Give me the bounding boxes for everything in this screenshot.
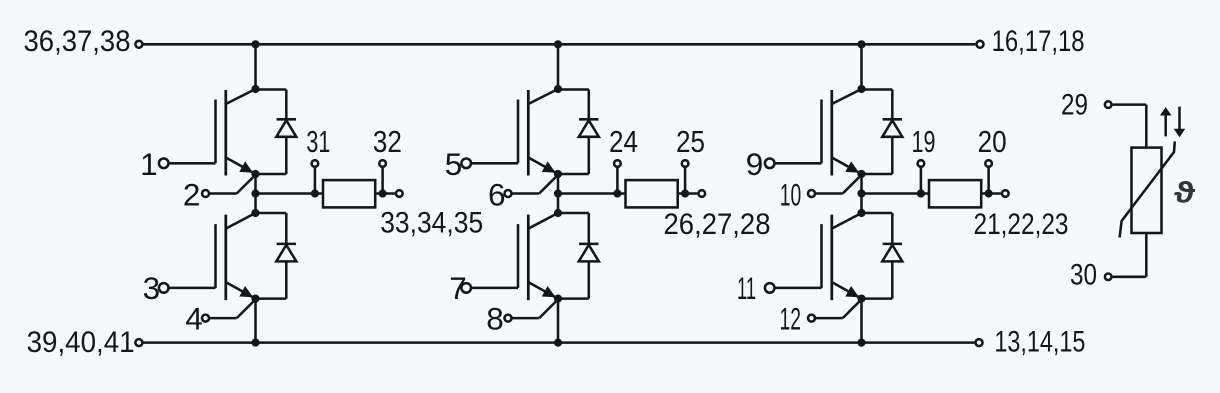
wire phase to resistor R3: [862, 192, 930, 195]
wire collector Q1: [254, 44, 257, 89]
pin 1 terminal: [159, 159, 169, 169]
wire collector Q3: [557, 44, 560, 89]
wire thermistor top: [1145, 105, 1148, 148]
wire emitter Q4 to bottom rail: [557, 299, 560, 343]
transistor Q6 emitter lead: [832, 282, 862, 299]
junction collector node Q5: [857, 85, 865, 93]
svg-text:3: 3: [143, 270, 161, 306]
junction top rail leg1: [251, 40, 259, 48]
wire pin 2 diagonal: [237, 175, 256, 194]
junction emitter node Q6: [857, 295, 865, 303]
transistor Q1 emitter lead: [226, 158, 256, 175]
svg-text:11: 11: [737, 270, 756, 306]
svg-text:30: 30: [1070, 259, 1097, 292]
wire emitter node to phase: [254, 174, 257, 213]
junction collector node Q6: [857, 209, 865, 217]
svg-text:8: 8: [486, 301, 504, 337]
arrow up (temperature): [1164, 113, 1167, 136]
svg-text:20: 20: [978, 124, 1007, 159]
wire collector to diode D4: [558, 212, 589, 215]
wire diode D2 to emitter node: [256, 297, 287, 300]
wire resistor R3 to output: [981, 192, 1001, 195]
transistor Q2 body bar: [224, 215, 227, 301]
wire DC+ rail (top): [143, 43, 975, 46]
junction emitter node Q4: [554, 295, 562, 303]
wire resistor R2 to output: [678, 192, 698, 195]
transistor Q6 gate lead wire: [775, 287, 821, 290]
wire resistor R1 to output: [375, 192, 395, 195]
diode D6 triangle: [882, 245, 902, 262]
pin 9 terminal: [765, 159, 775, 169]
wire diode D4 to emitter node: [558, 297, 589, 300]
junction phase node leg1: [251, 189, 259, 197]
wire thermistor to pin 30: [1113, 276, 1147, 279]
terminal DC+ left: [135, 41, 142, 48]
svg-text:9: 9: [746, 146, 764, 182]
transistor Q2 emitter arrow: [239, 286, 253, 297]
pin 30 terminal: [1105, 274, 1112, 281]
diode D2 cathode bar: [277, 243, 296, 246]
diode D1 cathode bar: [277, 118, 296, 121]
svg-text:24: 24: [609, 124, 638, 159]
transistor Q1 gate lead wire: [169, 162, 215, 165]
svg-text:12: 12: [780, 301, 802, 337]
wire collector to diode D3: [558, 88, 589, 91]
svg-text:13,14,15: 13,14,15: [994, 326, 1085, 359]
wire D3 cathode: [588, 90, 591, 120]
wire pin 25 stub: [684, 168, 687, 194]
transistor Q1 collector lead: [226, 89, 256, 104]
diode D5 cathode bar: [883, 118, 902, 121]
wire D6 anode: [891, 261, 894, 298]
junction pin 24 node: [613, 189, 621, 197]
transistor Q2 gate bar: [214, 224, 217, 288]
wire diode D6 to emitter node: [862, 297, 893, 300]
wire phase to resistor R1: [256, 192, 324, 195]
transistor Q6 body bar: [830, 215, 833, 301]
junction bottom rail leg1: [251, 339, 259, 347]
pin 6 terminal: [505, 190, 512, 197]
pin 12 terminal: [808, 315, 815, 322]
svg-text:1: 1: [140, 146, 158, 182]
pin 4 terminal: [202, 315, 209, 322]
pin 24 terminal: [614, 160, 621, 167]
junction bottom rail leg3: [857, 339, 865, 347]
pin 29 terminal: [1105, 101, 1112, 108]
junction collector node Q1: [251, 85, 259, 93]
pin 2 terminal: [202, 190, 209, 197]
wire diode D5 to emitter node: [862, 173, 893, 176]
svg-text:ϑ: ϑ: [1174, 176, 1196, 209]
svg-text:33,34,35: 33,34,35: [380, 207, 483, 240]
transistor Q3 emitter lead: [528, 158, 558, 175]
terminal AC output leg2: [699, 190, 706, 197]
wire D4 cathode: [588, 213, 591, 244]
transistor Q4 collector lead: [528, 213, 558, 229]
diode D2 triangle: [276, 245, 296, 262]
pin 20 terminal: [985, 160, 992, 167]
junction emitter node Q2: [251, 295, 259, 303]
transistor Q5 emitter lead: [832, 158, 862, 175]
diode D4 triangle: [579, 245, 599, 262]
wire D1 cathode: [285, 90, 288, 120]
pin 31 terminal: [312, 160, 319, 167]
svg-text:21,22,23: 21,22,23: [974, 208, 1069, 241]
transistor Q1 gate bar: [214, 100, 217, 164]
transistor Q4 body bar: [527, 215, 530, 301]
transistor Q4 gate lead wire: [472, 287, 518, 290]
terminal DC- right: [976, 339, 983, 346]
transistor Q3 body bar: [527, 90, 530, 176]
transistor Q3 collector lead: [528, 89, 558, 104]
transistor Q6 gate bar: [820, 224, 823, 288]
wire pin 12 diagonal: [843, 299, 862, 318]
wire D4 anode: [588, 261, 591, 298]
wire pin 24 stub: [616, 168, 619, 194]
wire emitter node to phase: [557, 174, 560, 213]
svg-text:4: 4: [185, 301, 203, 337]
terminal DC+ right: [977, 41, 984, 48]
terminal AC output leg3: [1002, 190, 1009, 197]
terminal AC output leg1: [396, 190, 403, 197]
diode D3 triangle: [579, 120, 599, 137]
wire collector to diode D6: [862, 212, 893, 215]
wire pin 10 stub: [816, 192, 843, 195]
transistor Q3 emitter arrow: [542, 161, 556, 172]
transistor Q5 emitter arrow: [845, 161, 859, 172]
terminal DC- left: [135, 339, 142, 346]
transistor Q5 gate bar: [820, 100, 823, 164]
wire DC- rail (bottom): [144, 341, 975, 344]
junction phase node leg2: [554, 189, 562, 197]
wire collector to diode D1: [256, 88, 287, 91]
transistor Q4 gate bar: [517, 224, 520, 288]
junction emitter node Q5: [857, 170, 865, 178]
junction bottom rail leg2: [554, 339, 562, 347]
svg-text:25: 25: [676, 124, 705, 159]
transistor Q2 emitter lead: [226, 282, 256, 299]
svg-text:10: 10: [780, 177, 802, 213]
wire D2 anode: [285, 261, 288, 298]
wire pin 8 diagonal: [539, 299, 558, 318]
wire pin 4 stub: [210, 317, 237, 320]
wire collector Q5: [860, 44, 863, 89]
arrow down (temperature): [1178, 107, 1181, 131]
transistor Q1 body bar: [224, 90, 227, 176]
pin 3 terminal: [159, 283, 169, 293]
wire diode D3 to emitter node: [558, 173, 589, 176]
pin 5 terminal: [461, 159, 471, 169]
wire D5 anode: [891, 137, 894, 174]
wire pin 31 stub: [314, 168, 317, 194]
pin 32 terminal: [379, 160, 386, 167]
wire collector to diode D5: [862, 88, 893, 91]
svg-text:7: 7: [449, 270, 467, 306]
junction pin 32 node: [379, 189, 387, 197]
junction collector node Q4: [554, 209, 562, 217]
wire D6 cathode: [891, 213, 894, 244]
wire phase to resistor R2: [558, 192, 626, 195]
wire pin 29 to thermistor: [1113, 103, 1147, 106]
junction top rail leg2: [554, 40, 562, 48]
resistor R1: [323, 180, 375, 207]
pin 8 terminal: [505, 315, 512, 322]
transistor Q3 gate bar: [517, 100, 520, 164]
wire D3 anode: [588, 137, 591, 174]
transistor Q5 collector lead: [832, 89, 862, 104]
wire emitter Q6 to bottom rail: [860, 299, 863, 343]
junction phase node leg3: [857, 189, 865, 197]
wire emitter Q2 to bottom rail: [254, 299, 257, 343]
svg-text:5: 5: [445, 146, 463, 182]
wire pin 6 stub: [512, 192, 539, 195]
wire collector to diode D2: [256, 212, 287, 215]
transistor Q6 collector lead: [832, 213, 862, 229]
wire pin 19 stub: [920, 168, 923, 194]
wire pin 12 stub: [816, 317, 843, 320]
pin 7 terminal: [461, 283, 471, 293]
junction pin 19 node: [917, 189, 925, 197]
wire pin 10 diagonal: [843, 175, 862, 194]
wire pin 6 diagonal: [539, 175, 558, 194]
resistor R2: [626, 180, 678, 207]
wire pin 8 stub: [512, 317, 539, 320]
resistor R3: [929, 180, 981, 207]
wire diode D1 to emitter node: [256, 173, 287, 176]
transistor Q2 collector lead: [226, 213, 256, 229]
wire pin 32 stub: [381, 168, 384, 194]
svg-text:19: 19: [912, 124, 936, 159]
transistor Q2 gate lead wire: [169, 287, 215, 290]
junction emitter node Q3: [554, 170, 562, 178]
junction collector node Q3: [554, 85, 562, 93]
svg-text:31: 31: [306, 124, 330, 159]
wire D2 cathode: [285, 213, 288, 244]
diode D5 triangle: [882, 120, 902, 137]
junction pin 25 node: [681, 189, 689, 197]
thermistor RT1 body: [1132, 148, 1162, 233]
wire pin 2 stub: [210, 192, 237, 195]
transistor Q4 emitter lead: [528, 282, 558, 299]
junction collector node Q2: [251, 209, 259, 217]
svg-text:36,37,38: 36,37,38: [24, 25, 131, 58]
junction emitter node Q1: [251, 170, 259, 178]
wire pin 20 stub: [987, 168, 990, 194]
wire emitter node to phase: [860, 174, 863, 213]
wire D5 cathode: [891, 90, 894, 120]
svg-text:26,27,28: 26,27,28: [664, 208, 771, 241]
pin 10 terminal: [808, 190, 815, 197]
junction top rail leg3: [857, 40, 865, 48]
svg-text:16,17,18: 16,17,18: [992, 25, 1085, 58]
pin 11 terminal: [765, 283, 775, 293]
junction pin 31 node: [311, 189, 319, 197]
diode D1 triangle: [276, 120, 296, 137]
svg-text:32: 32: [373, 124, 402, 159]
svg-text:39,40,41: 39,40,41: [27, 326, 135, 359]
transistor Q4 emitter arrow: [542, 286, 556, 297]
thermistor RT1 diagonal: [1120, 142, 1175, 238]
pin 25 terminal: [682, 160, 689, 167]
diode D4 cathode bar: [579, 243, 598, 246]
transistor Q5 gate lead wire: [775, 162, 821, 165]
junction pin 20 node: [985, 189, 993, 197]
transistor Q6 emitter arrow: [845, 286, 859, 297]
diode D6 cathode bar: [883, 243, 902, 246]
svg-text:2: 2: [183, 177, 201, 213]
wire pin 4 diagonal: [237, 299, 256, 318]
svg-text:6: 6: [488, 177, 506, 213]
diode D3 cathode bar: [579, 118, 598, 121]
pin 19 terminal: [918, 160, 925, 167]
transistor Q1 emitter arrow: [239, 161, 253, 172]
wire thermistor bottom: [1145, 233, 1148, 277]
svg-text:29: 29: [1061, 89, 1088, 122]
transistor Q5 body bar: [830, 90, 833, 176]
transistor Q3 gate lead wire: [472, 162, 518, 165]
wire D1 anode: [285, 137, 288, 174]
